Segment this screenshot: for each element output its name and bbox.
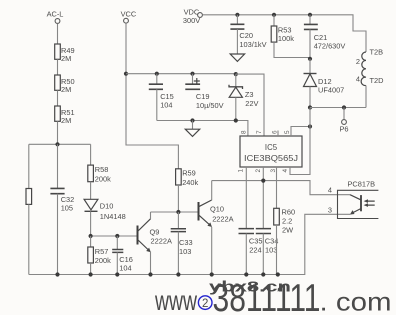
IC U5 ICE3BQ565J <box>240 136 302 167</box>
svg-text:R57: R57 <box>95 247 109 256</box>
svg-text:1: 1 <box>238 169 245 173</box>
svg-text:300V: 300V <box>183 16 200 25</box>
svg-text:2222A: 2222A <box>212 215 233 224</box>
resistor R52 (unlabeled) <box>26 189 32 205</box>
resistor R51 <box>55 106 75 125</box>
junction bus R57 <box>89 272 93 276</box>
wire C21 to node <box>309 29 311 59</box>
ground below C20 <box>230 54 244 61</box>
ground bus wire <box>29 214 350 274</box>
wire coil bottom <box>365 86 367 108</box>
svg-text:2W: 2W <box>282 226 293 235</box>
wire Z3 top to pin7 <box>236 74 264 136</box>
capacitor C35 <box>239 229 263 255</box>
wire R60 to bus <box>276 225 278 275</box>
wire VCC down <box>126 23 178 169</box>
svg-text:Q10: Q10 <box>210 205 224 214</box>
junction Z3 anode <box>234 118 238 122</box>
wire C34 to bus <box>262 234 264 275</box>
svg-text:T2B: T2B <box>370 48 384 57</box>
wire R49-R50 <box>57 59 59 75</box>
watermark www 2 3811111.com <box>154 277 391 315</box>
wire pin 5 <box>291 127 310 137</box>
wire gnd rail <box>157 121 248 137</box>
wire pin 2 to C34 <box>262 167 264 229</box>
wire R57 to bus <box>90 263 92 275</box>
svg-text:240k: 240k <box>182 178 198 187</box>
svg-text:7: 7 <box>256 130 263 134</box>
svg-text:VCC: VCC <box>121 10 137 19</box>
wire left branch to bus <box>28 204 30 274</box>
wire Q10 emitter to bus <box>211 227 213 275</box>
capacitor C32 <box>50 188 74 212</box>
svg-text:C33: C33 <box>179 238 193 247</box>
wire R58 branch <box>90 144 92 165</box>
wire C35 to bus <box>245 234 247 275</box>
junction pin2 <box>261 179 265 183</box>
svg-text:4: 4 <box>328 185 332 194</box>
svg-text:C21: C21 <box>314 33 328 42</box>
wire Q9 collector up <box>150 212 152 219</box>
junction bus C34 <box>261 272 265 276</box>
wire R50-R51 <box>57 90 59 106</box>
transistor Q10 <box>199 200 234 227</box>
resistor R57 <box>88 236 111 265</box>
capacitor C20 <box>230 13 266 49</box>
wire Q9 emitter to bus <box>150 252 152 275</box>
junction bus C32 <box>55 272 59 276</box>
junction C19 gnd <box>190 118 194 122</box>
junction bus C33 <box>176 272 180 276</box>
node B junction <box>89 234 93 238</box>
svg-text:Z3: Z3 <box>245 90 254 99</box>
svg-text:3811111: 3811111 <box>213 277 321 315</box>
svg-text:AC-L: AC-L <box>47 10 64 19</box>
terminal P6 <box>339 105 348 133</box>
zener Z3 <box>229 72 259 108</box>
wire C32 branch <box>57 144 59 188</box>
junction bus C16 <box>115 272 119 276</box>
junction C21/R53/D12 <box>308 57 312 61</box>
ground below C19 <box>185 121 199 137</box>
resistor R58 <box>88 165 111 184</box>
wire C20 to ground <box>236 29 238 54</box>
wire C15 to gnd rail <box>156 89 158 120</box>
svg-text:4: 4 <box>282 169 289 173</box>
resistor R59 <box>176 169 199 188</box>
wire R51 to node A <box>57 121 59 144</box>
svg-text:103/1kV: 103/1kV <box>239 40 266 49</box>
svg-text:8: 8 <box>241 130 248 134</box>
junction bus Q10 <box>210 272 214 276</box>
svg-text:T2D: T2D <box>370 76 384 85</box>
svg-text:2222A: 2222A <box>151 237 172 246</box>
svg-text:200k: 200k <box>95 256 111 265</box>
wire C32 to bus <box>57 194 59 275</box>
svg-text:103: 103 <box>179 247 191 256</box>
svg-text:. com: . com <box>320 287 392 315</box>
svg-text:22V: 22V <box>245 99 258 108</box>
svg-text:R59: R59 <box>182 169 196 178</box>
wire C16 to bus <box>116 252 118 274</box>
svg-text:IC5: IC5 <box>265 143 278 152</box>
wire D10 to node B <box>90 211 92 236</box>
svg-text:C19: C19 <box>196 92 210 101</box>
wire pin 3 to R60 <box>276 167 278 208</box>
svg-text:105: 105 <box>61 204 73 213</box>
svg-text:R53: R53 <box>278 26 292 35</box>
wire VCC rail horizontal <box>126 73 236 75</box>
svg-text:4: 4 <box>356 75 360 84</box>
junction pin5 tie <box>308 124 312 128</box>
svg-text:2: 2 <box>255 169 262 173</box>
wire C33 to bus <box>177 232 179 275</box>
inductor T2B/T2D winding <box>356 48 384 86</box>
wire feedback line to optocoupler <box>212 181 350 195</box>
svg-text:www: www <box>154 285 197 315</box>
capacitor C33 <box>171 212 193 256</box>
svg-text:3: 3 <box>328 206 332 215</box>
wire top rail <box>203 15 367 52</box>
svg-text:472/630V: 472/630V <box>314 42 346 51</box>
svg-text:C35: C35 <box>249 236 263 245</box>
svg-text:200k: 200k <box>95 175 111 184</box>
svg-text:100k: 100k <box>278 34 294 43</box>
wire Q10 collector up <box>211 181 213 201</box>
svg-text:104: 104 <box>119 264 131 273</box>
junction bus Q9 <box>148 272 152 276</box>
svg-text:C20: C20 <box>239 31 253 40</box>
svg-text:R60: R60 <box>282 208 296 217</box>
junction VCC bus <box>124 72 128 76</box>
terminal AC-L <box>47 10 64 24</box>
svg-text:5: 5 <box>284 130 291 134</box>
wire pin 1 to C35 <box>245 167 247 229</box>
optocoupler PC817B <box>328 179 379 218</box>
wire node D horizontal <box>151 211 199 213</box>
junction bus C35 <box>244 272 248 276</box>
svg-text:224: 224 <box>249 245 261 254</box>
wire node E to coil bottom <box>310 107 366 109</box>
svg-text:P6: P6 <box>339 125 348 134</box>
node D junction <box>176 210 180 214</box>
svg-text:UF4007: UF4007 <box>318 86 344 95</box>
pin 6 stub <box>277 131 279 137</box>
resistor R53 <box>271 13 294 44</box>
capacitor C34 <box>256 229 279 255</box>
node C16 junction <box>115 234 119 238</box>
svg-text:2: 2 <box>356 57 360 66</box>
terminal VDC 300V <box>183 7 203 25</box>
wire R59 to node D <box>177 185 179 212</box>
svg-text:R58: R58 <box>95 165 109 174</box>
capacitor C16 <box>112 236 133 273</box>
wire Z3 to gnd rail <box>235 97 237 120</box>
svg-text:PC817B: PC817B <box>348 179 376 188</box>
capacitor C19 <box>185 72 223 110</box>
resistor R49 <box>55 44 75 63</box>
svg-text:2M: 2M <box>61 116 71 125</box>
terminal VCC <box>121 10 137 24</box>
wire R53 to D12 node <box>274 42 310 57</box>
capacitor C15 <box>149 72 174 110</box>
svg-text:103: 103 <box>265 245 277 254</box>
wire node A horizontal <box>29 143 91 145</box>
wire AC-L to R49 <box>57 24 59 44</box>
diode D12 <box>304 59 345 95</box>
resistor R50 <box>55 75 75 94</box>
capacitor C21 <box>304 13 346 51</box>
svg-text:1N4148: 1N4148 <box>100 212 126 221</box>
junction bus R60 <box>276 272 280 276</box>
wire left branch down <box>28 144 30 188</box>
wire node B to Q9 base <box>91 235 138 237</box>
svg-text:D10: D10 <box>100 202 114 211</box>
wire D12 to node E <box>309 87 311 108</box>
wire R58 to D10 <box>90 182 92 200</box>
node A junction <box>55 142 59 146</box>
svg-text:Q9: Q9 <box>150 228 160 237</box>
svg-text:10µ/50V: 10µ/50V <box>196 101 224 110</box>
resistor R60 <box>274 208 295 235</box>
svg-text:ICE3BQ565J: ICE3BQ565J <box>244 154 298 163</box>
node E junction <box>308 105 312 109</box>
svg-text:2M: 2M <box>61 85 71 94</box>
svg-text:2M: 2M <box>61 54 71 63</box>
svg-text:2: 2 <box>202 298 208 310</box>
diode D10 <box>84 199 126 221</box>
svg-text:2.2: 2.2 <box>282 217 292 226</box>
wire pin4/pin5 tie vertical <box>290 108 310 175</box>
transistor Q9 <box>138 219 172 252</box>
svg-text:104: 104 <box>160 101 172 110</box>
